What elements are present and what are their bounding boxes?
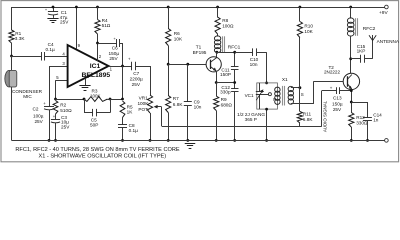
wire C1 stem — [53, 7, 55, 11]
wire R5 to C8 — [122, 118, 124, 125]
wire audio riser to C13 — [321, 91, 323, 127]
border frame — [1, 1, 399, 162]
node X1 ground — [265, 139, 268, 142]
node C1 rail junction — [52, 6, 55, 9]
wire VC1 to P terminal — [262, 94, 269, 96]
svg-text:25V: 25V — [333, 107, 342, 112]
svg-text:0.1µ: 0.1µ — [129, 128, 139, 133]
svg-text:C13: C13 — [333, 96, 342, 101]
node box bottom — [265, 108, 268, 111]
wire rail to R6 — [168, 7, 170, 29]
svg-text:1n: 1n — [373, 118, 379, 123]
wire C6 to output node — [120, 43, 123, 45]
capacitor C1 — [48, 11, 58, 13]
svg-text:POT: POT — [138, 107, 148, 112]
node C11 top — [233, 51, 236, 54]
svg-text:MIC: MIC — [23, 94, 32, 99]
condenser mic MIC1 — [5, 70, 14, 87]
capacitor C9 — [184, 101, 192, 103]
svg-text:25V: 25V — [61, 125, 70, 130]
svg-text:S: S — [301, 92, 304, 97]
node C11/C12 junction — [233, 81, 236, 84]
node R6 rail — [167, 6, 170, 9]
ground below C1 — [47, 18, 58, 20]
node S top junction — [299, 86, 302, 89]
svg-text:10K: 10K — [304, 29, 313, 34]
transistor T1 BF195 — [206, 57, 221, 72]
svg-text:BF195: BF195 — [193, 50, 207, 55]
svg-text:680Ω: 680Ω — [221, 102, 233, 107]
pin 2 wire — [97, 43, 99, 61]
svg-text:+9V: +9V — [379, 10, 388, 16]
node R5 top — [121, 98, 124, 101]
svg-text:4: 4 — [62, 51, 65, 56]
svg-text:R8: R8 — [222, 18, 228, 23]
op-amp IC1 BEL1895 — [68, 45, 109, 87]
wire RFC2 to T2 collector — [350, 36, 352, 74]
capacitor C5 parallel loop — [84, 99, 86, 113]
wire emitter to R9 — [216, 83, 218, 97]
wire C11 to C12 — [234, 69, 236, 88]
node output junction — [121, 65, 124, 68]
node R4 rail — [96, 6, 99, 9]
svg-text:T1: T1 — [196, 45, 202, 50]
resistor R8 — [215, 17, 220, 34]
node T1 collector junction — [216, 51, 219, 54]
svg-text:+: + — [330, 86, 333, 91]
resistor R7 — [166, 96, 171, 113]
+9V terminal — [385, 5, 389, 9]
svg-text:RFC1, RFC2 - 40 TURNS, 28 SWG: RFC1, RFC2 - 40 TURNS, 28 SWG ON 8mm TV … — [15, 147, 179, 153]
wire RFC1 to collector node — [217, 51, 219, 53]
variable capacitor VC1 — [259, 83, 261, 91]
svg-text:X1: X1 — [282, 77, 288, 83]
wire rail to R10 — [299, 7, 301, 22]
node R9 ground — [215, 139, 218, 142]
wire R3 to R5 node — [108, 99, 123, 101]
wire rail to RFC2 — [350, 7, 352, 19]
svg-text:100Ω: 100Ω — [222, 24, 234, 29]
svg-text:VC1: VC1 — [245, 93, 254, 98]
node mic/R1/C4 junction — [10, 55, 13, 58]
wire R11 to audio line — [299, 123, 301, 127]
node C5 left — [83, 98, 86, 101]
svg-text:2N2222: 2N2222 — [324, 69, 341, 74]
wire collector node to C11 — [217, 52, 235, 54]
wire S bottom to T2 base — [291, 103, 314, 105]
wire T1 emitter — [216, 71, 218, 83]
svg-text:1: 1 — [110, 66, 113, 71]
svg-text:R7: R7 — [173, 96, 179, 101]
wire base node down to R7 — [168, 64, 170, 95]
node emitter/C14 — [350, 101, 353, 104]
svg-text:5: 5 — [56, 75, 59, 80]
wire R12 to ground rail — [351, 127, 353, 140]
capacitor C14 — [351, 102, 367, 104]
wire R1 to mic node — [11, 43, 13, 56]
svg-text:3.3K: 3.3K — [15, 36, 26, 41]
resistor R1 — [9, 30, 14, 43]
node R2 top junction — [54, 98, 57, 101]
capacitor C4 — [41, 52, 43, 61]
wire T2 emitter — [351, 89, 353, 113]
X1 core — [282, 86, 284, 106]
wire S node to R11 — [299, 88, 301, 112]
svg-text:+: + — [43, 101, 46, 106]
ground below rail at C9 — [185, 143, 196, 145]
pin 6 wire — [85, 78, 87, 85]
wire C15 to antenna — [364, 58, 373, 60]
capacitor C8 — [118, 124, 127, 126]
node tank top junction — [265, 82, 268, 85]
svg-text:150P: 150P — [220, 72, 231, 77]
resistor R12 — [349, 113, 354, 128]
wire C14 to ground rail — [367, 121, 369, 141]
node C12 ground — [233, 139, 236, 142]
wire pin 3 to C2 branch — [49, 66, 68, 68]
wire R10 to S node — [299, 38, 301, 88]
svg-text:6.8K: 6.8K — [303, 117, 314, 122]
wire left branch top — [11, 7, 13, 30]
capacitor C11 — [234, 52, 236, 66]
node emitter/C13 — [350, 89, 353, 92]
wire C10 to tank — [256, 52, 267, 54]
gang condenser box — [257, 83, 278, 109]
wire R8 to RFC1 — [217, 34, 219, 37]
svg-text:1KP: 1KP — [357, 49, 366, 54]
wire mic node to mic — [11, 56, 13, 71]
svg-text:100µ: 100µ — [33, 113, 44, 118]
pin 9 wire (supply) — [76, 7, 78, 49]
wire S top to R10 column — [291, 87, 300, 89]
svg-text:100K: 100K — [90, 94, 101, 99]
svg-text:25V: 25V — [109, 56, 118, 61]
resistor R3 — [84, 97, 108, 102]
node pin9 rail — [75, 6, 78, 9]
svg-text:3: 3 — [62, 61, 65, 66]
svg-text:C2: C2 — [33, 107, 39, 112]
svg-text:25V: 25V — [34, 119, 43, 124]
svg-text:150µ: 150µ — [332, 101, 343, 106]
svg-text:0.1µ: 0.1µ — [46, 47, 56, 52]
capacitor C12 — [231, 88, 238, 90]
wire C9 top — [187, 64, 189, 102]
node VR1 ground — [149, 139, 152, 142]
label condenser mic — [13, 88, 44, 99]
wire pin5 node to R3 — [56, 99, 85, 101]
wire rail to R4 — [97, 7, 99, 20]
wire ground rail — [12, 140, 385, 142]
wire C12 to ground rail — [234, 92, 236, 141]
svg-text:R11: R11 — [303, 112, 312, 117]
node C2 ground — [48, 139, 51, 142]
wire R9 to ground rail — [216, 111, 218, 141]
inductor RFC1 — [214, 36, 220, 41]
wire wiper riser — [161, 107, 163, 127]
node C5 right — [109, 98, 112, 101]
node R7 ground — [167, 139, 170, 142]
svg-text:IC1: IC1 — [90, 63, 101, 70]
svg-text:R10: R10 — [304, 23, 313, 28]
node R12 ground — [350, 139, 353, 142]
svg-text:R6: R6 — [174, 31, 180, 36]
wire C4 to pin 4 — [45, 56, 68, 58]
wire mic node to C4 — [12, 56, 42, 58]
wire audio signal line — [162, 126, 322, 128]
svg-text:+: + — [128, 57, 131, 62]
wire +9V supply rail — [12, 7, 385, 9]
wire base wire to T1 — [168, 64, 206, 66]
svg-text:10n: 10n — [250, 62, 258, 67]
resistor R5 — [120, 101, 125, 118]
svg-text:10K: 10K — [174, 37, 183, 42]
wire C3 to ground rail — [55, 123, 57, 141]
svg-text:510Ω: 510Ω — [60, 108, 72, 113]
ground rail terminal — [385, 139, 389, 143]
svg-text:1K: 1K — [127, 110, 134, 115]
svg-text:100K: 100K — [137, 101, 149, 106]
antenna — [372, 35, 374, 41]
P winding terminal — [268, 93, 271, 96]
node C9 ground — [186, 139, 189, 142]
wire C8 to ground rail — [122, 128, 124, 141]
node C14 ground — [366, 139, 369, 142]
inductor RFC2 — [347, 18, 354, 23]
svg-text:VR1: VR1 — [139, 95, 149, 100]
svg-text:2200µ: 2200µ — [130, 76, 143, 81]
wire C7 to VR1 — [135, 66, 150, 68]
wire mic to ground rail — [11, 87, 13, 140]
resistor R11 — [297, 112, 302, 124]
svg-text:25V: 25V — [60, 20, 69, 25]
svg-text:10n: 10n — [194, 105, 202, 110]
capacitor C7 — [131, 62, 133, 71]
VR1 wiper arrow — [157, 106, 162, 108]
wire C9 to ground rail — [187, 105, 189, 140]
wire R6 to base node — [168, 46, 170, 65]
ground below IC1 — [79, 85, 90, 87]
node C3 ground — [54, 139, 57, 142]
wire pin 5 dogleg — [56, 80, 68, 82]
node RFC2 rail — [349, 6, 352, 9]
wire output to R5 node — [122, 66, 124, 99]
node R4/C6/pin2 — [96, 42, 99, 45]
svg-text:BEL1895: BEL1895 — [81, 72, 110, 79]
capacitor C10 — [235, 52, 253, 54]
svg-text:330Ω: 330Ω — [356, 121, 368, 126]
svg-text:9: 9 — [78, 43, 81, 48]
node C8 ground — [121, 139, 124, 142]
node C9 top junction — [186, 63, 189, 66]
wire T1 collector — [216, 52, 218, 57]
svg-text:2: 2 — [99, 54, 102, 59]
svg-text:51Ω: 51Ω — [102, 23, 111, 28]
node C15 junction — [349, 57, 352, 60]
resistor R4 — [95, 20, 100, 35]
svg-text:R9: R9 — [221, 97, 227, 102]
capacitor C15 — [351, 58, 361, 60]
transistor T2 2N2222 — [343, 73, 359, 89]
svg-text:+: + — [113, 36, 116, 41]
svg-text:50P: 50P — [90, 122, 98, 127]
wire R4 to C6 node — [97, 34, 99, 43]
svg-text:C7: C7 — [133, 71, 139, 76]
svg-text:ANTENNA: ANTENNA — [377, 39, 400, 44]
X1 secondary winding S — [288, 86, 293, 91]
wire box bottom to ground — [266, 109, 268, 140]
svg-text:RFC2: RFC2 — [363, 26, 376, 32]
wire VR1 bottom to rail — [150, 113, 152, 140]
svg-text:25V: 25V — [132, 82, 141, 87]
wire rail to R8 — [217, 7, 219, 18]
node R10 rail — [299, 6, 302, 9]
resistor R10 — [297, 22, 302, 38]
svg-text:R2: R2 — [60, 102, 66, 107]
wire R7 to ground rail — [168, 113, 170, 141]
svg-text:P: P — [273, 97, 276, 102]
capacitor C6 — [98, 43, 117, 45]
wire C2 to ground rail — [49, 110, 51, 141]
resistor R2 — [53, 101, 58, 115]
svg-text:365 P: 365 P — [245, 117, 257, 122]
node R8 rail — [216, 6, 219, 9]
wire IC1 output — [109, 66, 132, 68]
svg-text:330p: 330p — [220, 90, 231, 95]
svg-text:RFC1: RFC1 — [228, 44, 241, 50]
resistor R9 — [214, 96, 219, 111]
node T1 base junction — [167, 63, 170, 66]
resistor R6 — [166, 29, 171, 46]
wire emitter to C12 node — [216, 82, 235, 84]
svg-text:AUDIO SIGNAL: AUDIO SIGNAL — [322, 100, 327, 132]
X1 primary winding P — [275, 87, 280, 92]
potentiometer VR1 — [147, 95, 152, 113]
svg-text:6.8K: 6.8K — [173, 102, 184, 107]
node emitter junction — [215, 81, 218, 84]
svg-text:X1 - SHORTWAVE OSCILLATOR COIL: X1 - SHORTWAVE OSCILLATOR COIL (IFT TYPE… — [39, 153, 167, 159]
